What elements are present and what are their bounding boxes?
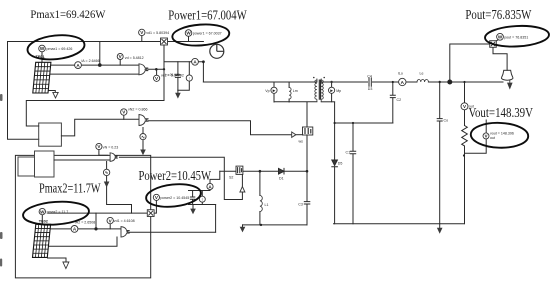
svg-text:C1: C1 [346,151,351,155]
svg-text:iA = 2.6466: iA = 2.6466 [82,59,100,63]
svg-text:W: W [498,35,503,40]
svg-text:D5: D5 [338,162,343,166]
svg-text:Lm: Lm [293,89,298,93]
svg-text:Vout=148.39V: Vout=148.39V [469,105,534,120]
svg-text:∿: ∿ [141,134,145,139]
svg-text:vd1 = 5.80394: vd1 = 5.80394 [146,31,169,35]
svg-text:out: out [490,136,495,140]
svg-text:vd1 = 4.6108: vd1 = 4.6108 [114,219,135,223]
svg-text:C4: C4 [367,75,372,79]
svg-text:↑: ↑ [201,197,203,202]
svg-text:Mp: Mp [336,89,341,93]
svg-text:vN2 = 0.866: vN2 = 0.866 [128,108,147,112]
svg-text:Power1=67.004W: Power1=67.004W [168,7,247,22]
svg-text:Pmax2=11.7W: Pmax2=11.7W [39,181,101,196]
svg-text:C3: C3 [298,203,303,207]
svg-text:pmax2 = 11.7: pmax2 = 11.7 [47,210,69,214]
svg-text:∿: ∿ [105,170,109,175]
svg-text:↑: ↑ [188,76,190,81]
svg-text:TE02: TE02 [39,219,48,223]
svg-text:i = 31.069: i = 31.069 [166,73,180,77]
svg-text:Pout=76.835W: Pout=76.835W [465,7,531,22]
svg-text:Power2=10.45W: Power2=10.45W [139,168,212,183]
svg-text:W: W [40,209,45,214]
svg-text:D3: D3 [368,87,373,91]
svg-text:L1: L1 [265,203,269,207]
svg-text:W: W [186,31,191,36]
svg-text:S2: S2 [229,176,233,180]
svg-text:ILo: ILo [398,72,403,76]
svg-text:►: ► [272,88,277,93]
svg-text:power1 = 67.0037: power1 = 67.0037 [193,32,222,36]
svg-text:vout = 148.396: vout = 148.396 [490,132,514,136]
svg-text:vN = 0.23: vN = 0.23 [103,145,118,149]
svg-text:Vp: Vp [265,89,269,93]
svg-text:Pmax1=69.426W: Pmax1=69.426W [30,7,106,21]
svg-text:Le: Le [420,72,424,76]
svg-text:W: W [40,46,45,51]
svg-text:C2: C2 [397,98,402,102]
svg-text:power2 = 10.4545: power2 = 10.4545 [160,196,189,200]
svg-text:D1: D1 [279,177,284,181]
svg-text:►: ► [329,88,334,93]
svg-text:Co: Co [444,119,449,123]
svg-text:pout = 76.8351: pout = 76.8351 [504,35,528,39]
svg-text:pmax1 = 69.426: pmax1 = 69.426 [47,47,73,51]
svg-text:ws: ws [299,140,304,144]
svg-text:vd = 5.4812: vd = 5.4812 [125,56,144,60]
